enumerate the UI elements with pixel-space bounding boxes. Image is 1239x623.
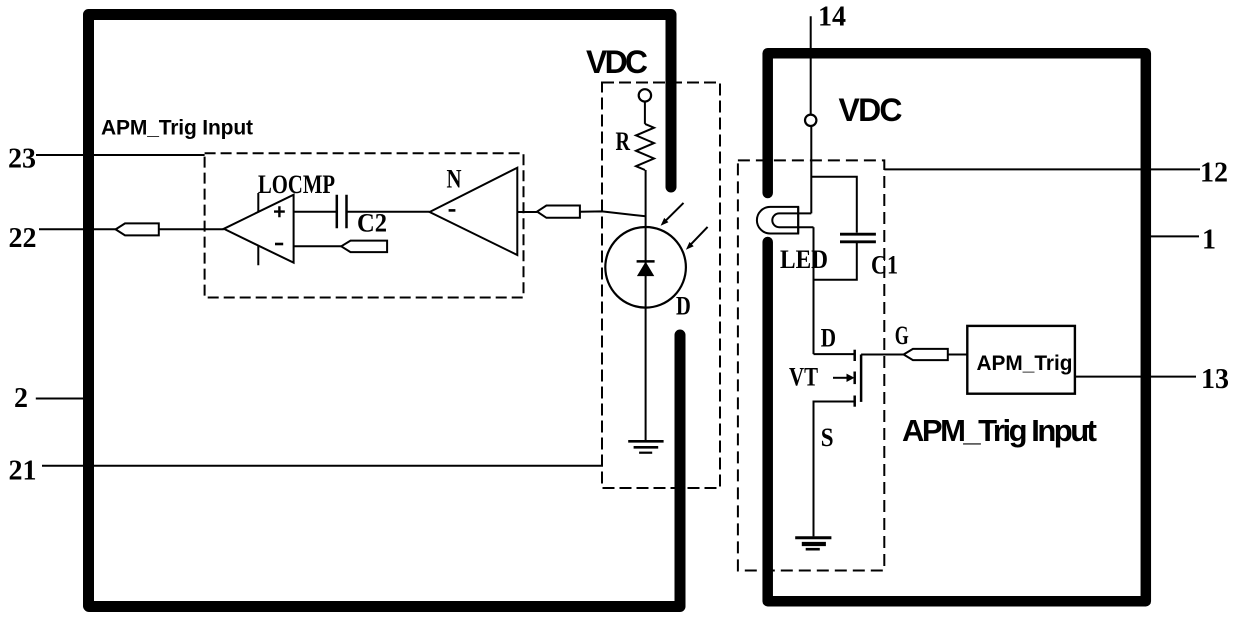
wire 22 left — [39, 228, 116, 230]
APM_Trig box — [967, 326, 1075, 394]
dashed box LOCMP stage — [205, 153, 524, 297]
connector pad gate — [904, 349, 948, 360]
wire VDC to LED — [810, 126, 812, 213]
wire resistor to photodiode — [645, 170, 647, 227]
resistor R — [636, 124, 654, 170]
op-amp U1 LOCMP triangle — [224, 195, 294, 263]
svg-text:APM_Trig Input: APM_Trig Input — [101, 117, 253, 140]
ground (mosfet source) — [795, 538, 831, 550]
wire 1 — [1151, 235, 1199, 237]
light arrow 2 — [686, 227, 708, 250]
svg-text:21: 21 — [9, 456, 37, 487]
wire 22 to comparator — [159, 228, 224, 230]
wire C1 top branch — [811, 177, 857, 233]
connector pad 22 — [116, 223, 159, 235]
capacitor C1 — [840, 234, 876, 242]
block 1 border (left module, top/left/right-upper) — [89, 15, 672, 607]
wire 12 — [884, 168, 1200, 170]
svg-text:C1: C1 — [871, 251, 898, 280]
svg-text:13: 13 — [1201, 364, 1229, 395]
terminal node VDC — [639, 89, 651, 101]
wire VDC to resistor — [644, 102, 646, 124]
LOCMP leader line — [257, 193, 259, 265]
mosfet body arrow — [833, 374, 855, 382]
wire 23 — [36, 154, 205, 156]
svg-text:N: N — [447, 165, 462, 194]
svg-text:D: D — [676, 292, 691, 321]
wire through photodiode — [645, 227, 647, 441]
svg-text:22: 22 — [9, 223, 37, 254]
inverter N triangle — [430, 168, 518, 255]
svg-text:R: R — [616, 127, 631, 156]
wire minus input — [294, 245, 342, 247]
photodiode D circle — [605, 227, 686, 308]
wire 14 — [810, 16, 812, 114]
svg-text:14: 14 — [818, 2, 846, 33]
minus input mark — [275, 243, 283, 246]
mosfet gate bar — [860, 355, 863, 402]
svg-text:G: G — [895, 321, 909, 350]
light arrow 1 — [661, 203, 684, 226]
block 2 border (right module) — [768, 53, 1146, 601]
wire plus input — [294, 211, 337, 213]
wire LED to drain — [813, 227, 815, 354]
wire 21 — [42, 465, 603, 467]
LED lamp outer bulb — [757, 207, 798, 234]
connector pad N output — [537, 206, 580, 218]
dashed box VDC photodetector — [602, 83, 720, 489]
plus input mark — [274, 206, 285, 217]
wire pad to photodiode node — [580, 211, 646, 216]
mosfet drain stub — [853, 350, 856, 361]
dashed box LED driver — [738, 160, 884, 570]
svg-text:23: 23 — [8, 144, 36, 175]
block 1 border (right-lower segment and bottom) — [89, 335, 680, 607]
terminal node 14 — [805, 115, 816, 126]
LED lamp inner bulb — [772, 213, 813, 227]
svg-text:2: 2 — [14, 383, 28, 414]
wire C1 bottom branch — [814, 243, 857, 280]
wire gate — [861, 354, 904, 356]
LED outer right edge — [797, 207, 799, 234]
mosfet source stub — [853, 396, 856, 407]
svg-text:VDC: VDC — [586, 44, 648, 80]
wire 2 — [36, 398, 88, 400]
svg-text:12: 12 — [1200, 158, 1228, 189]
wire drain — [814, 353, 855, 355]
svg-text:VDC: VDC — [839, 92, 903, 128]
svg-text:S: S — [821, 423, 834, 452]
wire C2 to inverter N — [347, 211, 430, 213]
svg-text:1: 1 — [1202, 225, 1216, 256]
ground (photodiode) — [628, 441, 663, 452]
svg-text:LOCMP: LOCMP — [258, 170, 335, 199]
svg-text:D: D — [821, 324, 836, 353]
wire 13 — [1075, 376, 1196, 378]
wire pad to APM_Trig box — [948, 354, 968, 356]
diode anode triangle — [638, 263, 654, 276]
svg-text:APM_Trig: APM_Trig — [977, 351, 1073, 375]
wire source — [814, 402, 855, 537]
svg-text:APM_Trig Input: APM_Trig Input — [902, 413, 1097, 448]
capacitor C2 — [337, 195, 347, 229]
svg-text:C2: C2 — [357, 209, 387, 238]
mosfet body stub — [853, 372, 856, 385]
inverter minus mark — [449, 209, 456, 212]
svg-text:LED: LED — [780, 245, 828, 274]
diode cathode bar — [637, 260, 655, 263]
connector pad minus input — [341, 241, 387, 253]
svg-text:VT: VT — [789, 363, 818, 392]
wire N output — [517, 211, 537, 213]
